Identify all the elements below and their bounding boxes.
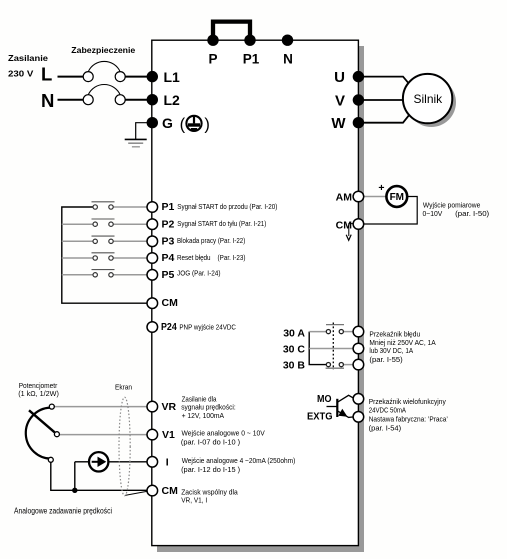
svg-text:G: G bbox=[162, 115, 173, 131]
svg-text:Wejście analogowe 0 ~ 10V: Wejście analogowe 0 ~ 10V bbox=[182, 428, 265, 437]
svg-text:Silnik: Silnik bbox=[414, 92, 444, 106]
svg-text:P1: P1 bbox=[162, 201, 175, 213]
svg-text:N: N bbox=[283, 52, 293, 67]
svg-text:(par. I-55): (par. I-55) bbox=[369, 355, 402, 364]
svg-text:AM: AM bbox=[336, 192, 353, 204]
svg-text:P3: P3 bbox=[162, 236, 175, 248]
svg-text:Wyjście pomiarowe: Wyjście pomiarowe bbox=[423, 200, 480, 209]
svg-text:Ekran: Ekran bbox=[115, 382, 132, 391]
svg-text:L2: L2 bbox=[164, 92, 181, 108]
svg-text:CM: CM bbox=[162, 297, 179, 309]
svg-text:VR: VR bbox=[162, 401, 177, 413]
svg-text:Analogowe zadawanie prędkości: Analogowe zadawanie prędkości bbox=[14, 507, 112, 516]
svg-text:Zasilanie: Zasilanie bbox=[8, 53, 48, 63]
svg-text:30 C: 30 C bbox=[283, 344, 306, 356]
svg-text:(: ( bbox=[180, 116, 186, 134]
svg-text:): ) bbox=[204, 116, 210, 134]
svg-text:CM: CM bbox=[336, 219, 353, 231]
svg-text:EXTG: EXTG bbox=[307, 411, 333, 423]
svg-text:30 B: 30 B bbox=[283, 360, 306, 372]
svg-text:PNP wyjście 24VDC: PNP wyjście 24VDC bbox=[179, 323, 236, 332]
svg-text:(par. I-12 do I-15 ): (par. I-12 do I-15 ) bbox=[181, 465, 240, 474]
svg-text:(1 kΩ, 1/2W): (1 kΩ, 1/2W) bbox=[18, 389, 59, 398]
svg-text:Reset błędu (Par. I-23): Reset błędu (Par. I-23) bbox=[177, 253, 246, 262]
svg-text:P: P bbox=[208, 52, 217, 67]
svg-text:230 V: 230 V bbox=[8, 68, 34, 78]
svg-text:24VDC 50mA: 24VDC 50mA bbox=[369, 406, 406, 415]
svg-text:P24: P24 bbox=[161, 321, 177, 333]
svg-text:Sygnał START do przodu (Par. I: Sygnał START do przodu (Par. I-20) bbox=[177, 202, 277, 211]
svg-text:W: W bbox=[331, 115, 346, 132]
svg-text:MO: MO bbox=[317, 393, 332, 405]
svg-text:U: U bbox=[334, 69, 345, 86]
svg-text:V: V bbox=[335, 92, 345, 109]
svg-text:Blokada pracy (Par. I-22): Blokada pracy (Par. I-22) bbox=[177, 236, 245, 245]
svg-text:P1: P1 bbox=[243, 52, 260, 67]
svg-text:+ 12V, 100mA: + 12V, 100mA bbox=[182, 411, 225, 420]
svg-text:(par. I-54): (par. I-54) bbox=[369, 423, 401, 432]
svg-text:P4: P4 bbox=[162, 252, 175, 264]
svg-text:Sygnał START do tyłu (Par. I-2: Sygnał START do tyłu (Par. I-21) bbox=[177, 219, 266, 228]
svg-text:Nastawa fabryczna: ’Praca’: Nastawa fabryczna: ’Praca’ bbox=[369, 415, 449, 424]
svg-text:CM: CM bbox=[162, 485, 179, 497]
svg-text:Przekaźnik wielofunkcyjny: Przekaźnik wielofunkcyjny bbox=[369, 397, 446, 406]
svg-text:(par. I-50): (par. I-50) bbox=[455, 209, 489, 218]
svg-text:L1: L1 bbox=[164, 69, 181, 85]
svg-text:Wejście analogowe 4 ~20mA (250: Wejście analogowe 4 ~20mA (250ohm) bbox=[182, 456, 296, 465]
svg-text:30 A: 30 A bbox=[283, 328, 305, 340]
svg-text:VR, V1, I: VR, V1, I bbox=[181, 495, 207, 504]
svg-text:Zabezpieczenie: Zabezpieczenie bbox=[71, 45, 135, 55]
svg-text:0~10V: 0~10V bbox=[423, 209, 443, 218]
svg-text:N: N bbox=[41, 90, 54, 111]
svg-text:JOG (Par. I-24): JOG (Par. I-24) bbox=[177, 269, 221, 278]
svg-text:P5: P5 bbox=[162, 269, 175, 281]
svg-text:V1: V1 bbox=[162, 429, 175, 441]
svg-text:P2: P2 bbox=[162, 218, 175, 230]
svg-text:(par. I-07 do I-10 ): (par. I-07 do I-10 ) bbox=[181, 437, 240, 446]
svg-text:+: + bbox=[378, 182, 384, 194]
svg-text:lub 30V DC, 1A: lub 30V DC, 1A bbox=[369, 346, 413, 355]
svg-text:L: L bbox=[41, 63, 52, 84]
svg-text:I: I bbox=[166, 457, 169, 469]
svg-text:FM: FM bbox=[390, 192, 404, 203]
